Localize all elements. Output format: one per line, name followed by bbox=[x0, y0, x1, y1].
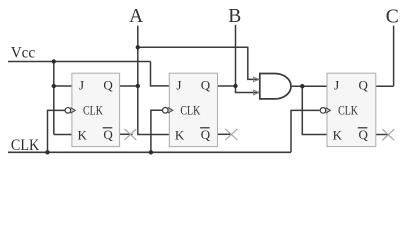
U1 clock triangle bbox=[71, 108, 76, 114]
svg-text:Vcc: Vcc bbox=[11, 45, 36, 62]
junction dot A branch bbox=[136, 45, 140, 49]
svg-text:J: J bbox=[79, 78, 84, 93]
svg-text:CLK: CLK bbox=[83, 102, 103, 117]
wire AND output to K3 bbox=[302, 86, 327, 134]
svg-text:J: J bbox=[176, 78, 181, 93]
junction dot A / Q1 bbox=[136, 84, 140, 88]
wire CLK to FF1 clock bbox=[48, 110, 66, 152]
flip-flop U2 box bbox=[169, 73, 217, 146]
svg-text:Q: Q bbox=[201, 78, 211, 93]
svg-text:CLK: CLK bbox=[338, 102, 358, 117]
U3 clock triangle bbox=[326, 108, 331, 114]
junction dot CLK rail FF1 bbox=[45, 150, 49, 154]
flip-flop U1 box bbox=[72, 73, 120, 146]
svg-text:C: C bbox=[386, 6, 399, 27]
svg-text:Q: Q bbox=[103, 78, 113, 93]
wire Vcc to J2 bbox=[151, 62, 170, 86]
wire J1 branch bbox=[54, 85, 72, 87]
svg-text:J: J bbox=[334, 78, 339, 93]
wire Q2-bar stub bbox=[218, 133, 231, 135]
X mark unused Q2-bar bbox=[225, 129, 237, 140]
svg-text:A: A bbox=[129, 6, 143, 27]
junction dot AND output bbox=[300, 84, 304, 88]
svg-text:K: K bbox=[175, 127, 185, 142]
wire K1 branch bbox=[54, 134, 72, 136]
U2 clock bubble bbox=[163, 108, 169, 114]
AND gate G1 bbox=[260, 74, 291, 99]
junction dot CLK rail FF2 bbox=[149, 150, 153, 154]
svg-text:B: B bbox=[228, 6, 241, 27]
wire Q3-bar stub bbox=[376, 134, 389, 136]
wire CLK to FF3 clock bbox=[291, 110, 320, 152]
svg-text:K: K bbox=[333, 127, 343, 142]
svg-text:Q: Q bbox=[359, 78, 369, 93]
U3 clock bubble bbox=[320, 108, 326, 114]
svg-text:Q: Q bbox=[103, 127, 113, 142]
junction dot B / Q2 bbox=[233, 84, 237, 88]
Vcc rail bbox=[8, 61, 151, 63]
U2 clock triangle bbox=[168, 108, 173, 114]
wire CLK to FF2 clock bbox=[151, 110, 162, 152]
wire AND output to J3 bbox=[291, 85, 327, 87]
X mark unused Q1-bar bbox=[125, 129, 137, 140]
G1 upper input arrowhead bbox=[254, 77, 259, 81]
wire A branch to AND gate upper input bbox=[138, 47, 260, 79]
wire Q2 to AND gate lower input bbox=[236, 86, 260, 93]
wire Q2 output bbox=[218, 85, 236, 87]
wire node B vertical bbox=[235, 25, 237, 86]
wire Vcc feed vertical to J1/K1 bbox=[53, 62, 55, 135]
svg-text:CLK: CLK bbox=[180, 102, 200, 117]
junction dot Vcc rail bbox=[52, 59, 56, 63]
flip-flop U3 box bbox=[327, 73, 376, 146]
wire Q3 output bbox=[376, 85, 394, 87]
svg-text:CLK: CLK bbox=[11, 137, 40, 154]
wire Q1 output bbox=[120, 85, 138, 87]
svg-text:Q: Q bbox=[201, 127, 211, 142]
U1 clock bubble bbox=[65, 108, 71, 114]
junction dot J1 branch bbox=[52, 84, 56, 88]
svg-text:Q: Q bbox=[359, 127, 369, 142]
CLK rail bbox=[8, 151, 291, 153]
wire node C vertical bbox=[393, 26, 395, 87]
X mark unused Q3-bar bbox=[382, 129, 394, 140]
G1 lower input arrowhead bbox=[254, 90, 259, 94]
wire Q1-bar stub bbox=[120, 133, 133, 135]
svg-text:K: K bbox=[78, 127, 88, 142]
wire node A vertical and K2 feed bbox=[138, 26, 170, 135]
